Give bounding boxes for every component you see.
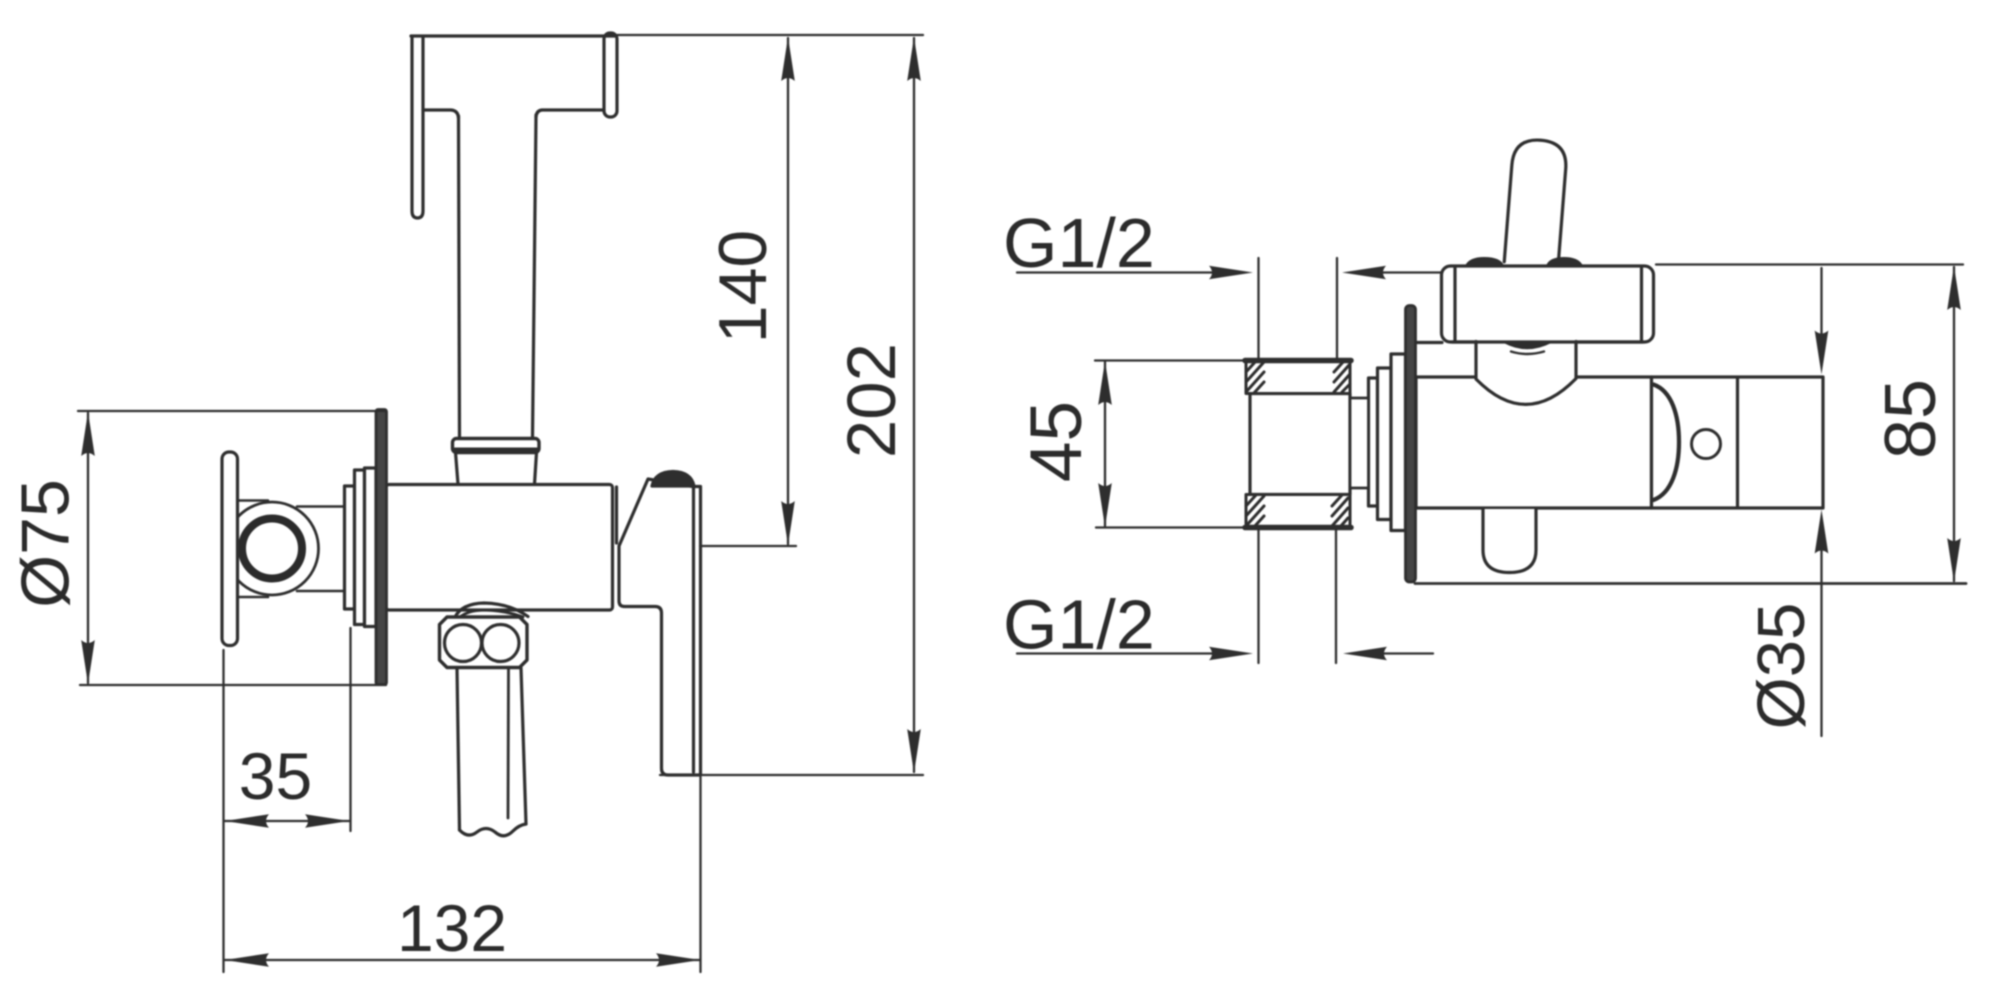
svg-text:140: 140 <box>705 230 781 343</box>
lever dome <box>652 472 694 487</box>
flange ring 1 side <box>1369 378 1378 506</box>
svg-text:132: 132 <box>397 891 507 965</box>
knob stem lines <box>297 507 344 592</box>
spout divider <box>1736 378 1739 507</box>
valve body front view <box>386 485 613 611</box>
dimension 202 <box>660 37 923 775</box>
flange ring 2 side <box>1378 368 1392 520</box>
knob outer circle <box>226 502 319 595</box>
lever base pad left <box>1466 258 1503 266</box>
toggle lever <box>1504 138 1568 266</box>
svg-text:85: 85 <box>1871 379 1951 459</box>
cross handle bar <box>222 452 238 646</box>
valve body side view <box>1416 377 1652 508</box>
bar bottom edge over neck <box>1452 340 1643 343</box>
spout block <box>1652 377 1824 508</box>
union bottom flange <box>1246 495 1350 529</box>
hex nut top arc <box>455 603 528 617</box>
hose break wave <box>460 824 527 836</box>
svg-text:Ø35: Ø35 <box>1744 603 1819 730</box>
svg-text:202: 202 <box>833 343 910 458</box>
control lever front view <box>619 479 701 775</box>
plate to bar link line <box>1417 341 1442 344</box>
dimension 85 <box>1656 265 1963 583</box>
lever base pad right <box>1547 258 1582 266</box>
dimension 45 <box>1095 361 1250 528</box>
base strip bottom line <box>1415 582 1966 585</box>
dimension G1/2 top <box>1017 258 1441 360</box>
spout screw circle <box>1692 430 1721 459</box>
flange ring 1 <box>345 486 355 609</box>
sprayer head top line <box>411 34 616 37</box>
hex nut <box>440 617 528 668</box>
knob thick ring <box>242 519 302 579</box>
dimension 132 <box>225 777 701 972</box>
dimension 35 <box>224 628 351 972</box>
wall plate edge view <box>376 410 387 685</box>
nut circle right <box>482 625 519 662</box>
svg-text:G1/2: G1/2 <box>1003 586 1155 664</box>
flange ring 3 side <box>1391 354 1406 531</box>
union top flange hatch left <box>1246 361 1264 393</box>
wall plate side view <box>1406 306 1416 583</box>
sprayer base block <box>456 453 537 485</box>
dimension Ø35 <box>1815 268 1829 736</box>
lever inner line <box>692 487 695 772</box>
union top flange <box>1246 360 1350 394</box>
union pipe stub <box>1350 398 1369 488</box>
flange ring 3 <box>365 468 377 627</box>
nut circle left <box>445 625 482 662</box>
sprayer handle tube right edge <box>533 115 537 438</box>
knob tangent lines left <box>238 501 268 598</box>
svg-text:G1/2: G1/2 <box>1003 204 1155 282</box>
union nut body <box>1250 394 1350 495</box>
svg-text:45: 45 <box>1016 401 1097 482</box>
sprayer handle tube left edge <box>459 116 460 438</box>
svg-text:35: 35 <box>239 739 312 813</box>
sprayer nozzle tube <box>412 37 423 218</box>
union bottom flange hatch right <box>1332 495 1348 527</box>
ball joint neck <box>1476 340 1576 404</box>
hose right edge <box>521 668 526 824</box>
lever gap line <box>615 487 618 543</box>
union bottom flange hatch left <box>1246 495 1264 527</box>
sprayer head end cap <box>604 33 617 117</box>
handle bar left cap line <box>1453 268 1456 340</box>
sprayer collar <box>453 439 540 453</box>
svg-text:Ø75: Ø75 <box>8 479 84 608</box>
outlet tube <box>1483 509 1536 573</box>
handle bar side view <box>1442 266 1654 342</box>
flange ring 2 <box>355 470 365 625</box>
sprayer head inner line <box>423 110 459 118</box>
handle bar right cap line <box>1640 268 1643 340</box>
hose left edge <box>457 668 460 830</box>
hose inner line <box>507 668 510 818</box>
dimension Ø75 <box>78 411 386 685</box>
sprayer head inner line right <box>536 110 604 117</box>
dimension G1/2 bottom <box>1017 529 1433 663</box>
ball joint shadow crescent <box>1504 342 1551 348</box>
union top flange hatch right <box>1334 361 1350 392</box>
dimension 140 <box>617 35 923 546</box>
spout aerator arc <box>1654 385 1680 501</box>
